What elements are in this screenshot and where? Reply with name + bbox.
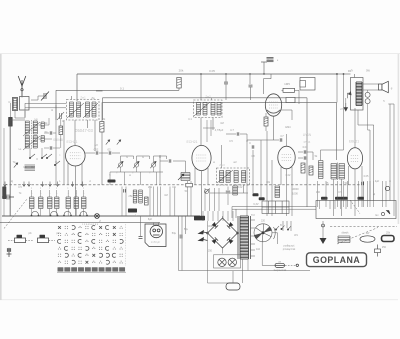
wire bbox=[243, 185, 245, 193]
capacitor right 1 bbox=[304, 150, 306, 153]
svg-text:C7: C7 bbox=[280, 134, 284, 138]
svg-text:0.05: 0.05 bbox=[364, 175, 369, 178]
capacitor padding bbox=[41, 122, 44, 129]
capacitor grid V4 bbox=[280, 138, 282, 141]
wire to band switch 2 bbox=[25, 107, 66, 109]
wire right drop bbox=[337, 181, 339, 207]
wire screen bus inner bbox=[103, 101, 337, 103]
svg-text:0.01: 0.01 bbox=[303, 146, 308, 149]
wire antenna stage feed bbox=[76, 74, 78, 101]
wire V5 cathode bbox=[354, 169, 356, 216]
jack TG dark bbox=[2, 187, 6, 200]
wire trimmer bus bbox=[110, 171, 163, 173]
wire V3 down bbox=[273, 116, 275, 140]
wire switch drop a bbox=[282, 221, 284, 231]
svg-text:1M: 1M bbox=[134, 194, 138, 198]
padder trimmer 1 bbox=[117, 161, 123, 168]
switch wafer contact bbox=[79, 212, 87, 217]
svg-text:50µ: 50µ bbox=[184, 228, 189, 231]
oscillator coil Lo1 bbox=[30, 197, 35, 209]
core L1L2 bbox=[30, 120, 32, 149]
wire bbox=[56, 190, 58, 197]
resistor dark right bbox=[321, 197, 328, 200]
tuning arrow L4 bbox=[23, 136, 40, 150]
wire psu left rail bbox=[207, 221, 209, 283]
diode bbox=[227, 222, 234, 229]
wire bbox=[225, 74, 227, 82]
capacitor 0.1 forest bbox=[124, 189, 126, 192]
resistor mixer bbox=[59, 126, 63, 135]
mains plug bbox=[199, 231, 208, 242]
wire forest drop bbox=[149, 187, 151, 217]
wire bbox=[354, 74, 356, 78]
wire bbox=[44, 132, 49, 134]
wire bbox=[212, 118, 214, 131]
wire bbox=[53, 147, 60, 149]
IF3 coil a bbox=[220, 171, 224, 183]
trimmer arrow 1 bbox=[106, 140, 110, 145]
terminal tick bbox=[329, 201, 331, 210]
capacitor 052 b bbox=[109, 151, 111, 154]
wire selector bbox=[272, 233, 278, 244]
wire bbox=[53, 132, 56, 134]
wire bbox=[240, 134, 247, 142]
wire forest drop bbox=[125, 187, 127, 217]
scan edge right bbox=[398, 54, 400, 224]
wire right drop bbox=[317, 181, 319, 207]
legend choke bbox=[338, 236, 350, 243]
wire bbox=[44, 147, 49, 149]
wire bbox=[260, 140, 262, 197]
svg-text:1 2 3 4 5 6 7 8 9: 1 2 3 4 5 6 7 8 9 bbox=[82, 224, 99, 226]
svg-text:0.5: 0.5 bbox=[338, 191, 342, 194]
wire bbox=[270, 139, 279, 141]
diode bbox=[212, 222, 219, 229]
wire bbox=[67, 190, 69, 197]
wire column x56 bbox=[55, 105, 57, 185]
wire bbox=[83, 209, 85, 217]
svg-text:VDR: VDR bbox=[207, 225, 212, 228]
svg-text:1M: 1M bbox=[220, 122, 223, 125]
svg-text:w: w bbox=[213, 161, 215, 164]
wire bbox=[24, 111, 26, 117]
wire bbox=[235, 209, 237, 218]
wire bbox=[83, 190, 85, 197]
switch wiper left bbox=[14, 163, 18, 168]
wire bbox=[55, 90, 57, 120]
resistor 1M5 bbox=[283, 88, 295, 92]
wire bbox=[178, 88, 180, 90]
pot wiper bbox=[178, 174, 184, 180]
wire bbox=[221, 145, 223, 168]
wire top cap bbox=[263, 78, 271, 80]
svg-text:Zw3: Zw3 bbox=[219, 163, 225, 167]
oscillator coupling coil bbox=[25, 165, 36, 170]
capacitor mid bbox=[226, 191, 230, 193]
wire long mid bbox=[246, 142, 248, 216]
switch contact c bbox=[46, 154, 52, 159]
wire bbox=[156, 172, 158, 185]
standoff 2 bbox=[38, 235, 56, 243]
VDR dark bbox=[194, 216, 205, 221]
capacitor 0.05 det bbox=[286, 98, 295, 103]
wire bbox=[44, 118, 49, 125]
wire trimmer 3 hook bbox=[154, 156, 167, 163]
legend dashed diag bbox=[337, 228, 378, 245]
svg-text:0.02: 0.02 bbox=[286, 174, 291, 177]
wire psu drop bbox=[212, 211, 214, 221]
AVC dashed bus bbox=[5, 184, 362, 186]
wire bbox=[341, 179, 343, 216]
wire IF2 feed bbox=[211, 98, 213, 100]
svg-text:25k: 25k bbox=[128, 194, 133, 198]
switch contact arrow bbox=[4, 182, 7, 187]
wire bbox=[262, 79, 264, 94]
wire left edge column bbox=[3, 128, 5, 216]
wire forest drop right bbox=[214, 188, 216, 211]
wire bbox=[109, 172, 111, 185]
trimmer arrow 2 bbox=[117, 140, 121, 145]
antenna coil winding bbox=[13, 99, 17, 110]
wire bbox=[363, 103, 394, 105]
wire bbox=[307, 151, 313, 153]
capacitor trimmer antenna bbox=[41, 92, 49, 101]
svg-text:1000: 1000 bbox=[292, 192, 298, 196]
wire bbox=[333, 179, 335, 216]
wire V4 cathode bbox=[286, 169, 288, 216]
wire bridge top bbox=[222, 216, 224, 218]
svg-text:W1: W1 bbox=[294, 234, 298, 237]
fuse dashes bbox=[285, 264, 296, 266]
wire bbox=[336, 102, 338, 160]
svg-text:250: 250 bbox=[208, 250, 213, 253]
wire right drop bbox=[363, 181, 365, 207]
svg-text:05047-03: 05047-03 bbox=[75, 128, 93, 133]
wire speaker a bbox=[363, 83, 379, 85]
wire screen bus outer bbox=[103, 97, 308, 99]
wire bbox=[231, 207, 233, 218]
wire bbox=[9, 103, 11, 117]
dial lamp bbox=[228, 258, 236, 266]
dial lamp bbox=[218, 258, 226, 266]
transformer tap bbox=[251, 249, 256, 251]
legend dashed line bbox=[330, 225, 397, 227]
tube socket layout grid bbox=[57, 226, 123, 265]
scan area tint bbox=[0, 54, 400, 300]
wire bbox=[190, 181, 192, 216]
wire speaker return bbox=[388, 103, 394, 105]
svg-text:1M: 1M bbox=[164, 194, 167, 197]
wire bbox=[101, 102, 103, 121]
capacitor left bottom bbox=[2, 195, 14, 200]
wire heater 2 bbox=[232, 208, 316, 210]
wire bbox=[136, 167, 138, 172]
wire forest drop bbox=[160, 187, 162, 217]
IF2 tuning arrow bbox=[194, 102, 210, 116]
wire right edge drop bbox=[389, 104, 391, 201]
switch wafer contact bbox=[63, 212, 71, 217]
wire bbox=[41, 148, 43, 158]
wire trimmer 1 hook bbox=[121, 156, 134, 163]
junction bbox=[200, 73, 201, 74]
switch contact arrow bbox=[81, 182, 84, 187]
wire transformer bottom bbox=[242, 259, 244, 283]
svg-text:6,3V: 6,3V bbox=[253, 203, 258, 206]
svg-text:0.5: 0.5 bbox=[18, 186, 22, 189]
wire +HT top bus bbox=[77, 73, 337, 75]
wire bbox=[81, 163, 83, 185]
capacitor trimmer bbox=[224, 82, 228, 84]
IF1 primary coil bbox=[70, 102, 74, 117]
resistor 20k bbox=[177, 78, 181, 89]
switch contact arrow bbox=[56, 182, 59, 187]
wire right edge drop b bbox=[393, 104, 395, 216]
IF3 coil d bbox=[242, 171, 246, 183]
IF3 coil b bbox=[226, 171, 230, 183]
wire to ground bbox=[322, 221, 324, 238]
svg-text:110: 110 bbox=[256, 248, 261, 251]
switch contact arrow bbox=[23, 182, 26, 187]
svg-text:w: w bbox=[129, 174, 131, 177]
wire bbox=[179, 259, 216, 261]
tuning gang dashed diagonal bbox=[4, 199, 27, 229]
wire forest drop bbox=[174, 187, 176, 217]
wire bbox=[44, 138, 52, 140]
resistor dark right bbox=[358, 197, 365, 200]
speaker bbox=[379, 81, 389, 92]
wire af bus bbox=[210, 192, 248, 194]
svg-text:2x50μF: 2x50μF bbox=[151, 240, 161, 244]
antenna coil primary bbox=[13, 98, 18, 111]
wire right drop bbox=[385, 181, 387, 207]
svg-text:dławik: dławik bbox=[342, 232, 350, 235]
wire bbox=[173, 160, 186, 162]
wire heater 1 bbox=[232, 206, 316, 208]
terminal tick bbox=[340, 201, 342, 210]
wire psu right bus bbox=[249, 270, 311, 272]
IF2 secondary b bbox=[217, 103, 221, 116]
scan edge left 2 bbox=[0, 54, 2, 300]
bridge corner R bbox=[237, 232, 239, 234]
connector circle b bbox=[365, 99, 370, 104]
connector circle a bbox=[365, 92, 370, 97]
IF1 tuning arrow bbox=[67, 103, 84, 118]
resistor right a bbox=[301, 163, 305, 173]
wire switch drop b bbox=[286, 221, 288, 228]
GOPLANA box bbox=[307, 253, 367, 267]
svg-text:220: 220 bbox=[261, 220, 266, 223]
wire bbox=[252, 150, 254, 193]
wire psu bottom rail bbox=[208, 282, 239, 284]
wire right drop bbox=[373, 181, 375, 207]
dark comp chassis bbox=[128, 209, 137, 213]
wire bbox=[56, 209, 58, 217]
terminal table bbox=[262, 201, 289, 214]
resistor vert dark bbox=[233, 186, 238, 195]
IF1 secondary coil b bbox=[92, 102, 96, 117]
terminal tick bbox=[350, 201, 352, 210]
jack circle right bbox=[385, 186, 389, 190]
resistor dark 2 bbox=[259, 197, 265, 200]
wire forest drop right bbox=[209, 188, 211, 211]
switch wafer contact bbox=[50, 212, 58, 217]
IF2 secondary bbox=[211, 103, 215, 116]
wire bbox=[67, 209, 69, 217]
svg-text:1/2: 1/2 bbox=[94, 144, 98, 147]
wire bbox=[67, 163, 69, 185]
wire bbox=[207, 168, 209, 185]
capacitor top plate bbox=[261, 61, 267, 63]
wire bbox=[336, 74, 338, 102]
padder trimmer 2 bbox=[133, 161, 139, 168]
resistor vert dark 2 bbox=[275, 186, 280, 198]
jack TA bbox=[8, 117, 12, 127]
coil L2 bbox=[33, 121, 37, 134]
wire from TA jack to chassis bbox=[9, 127, 11, 217]
svg-text:przełącznik: przełącznik bbox=[283, 248, 296, 251]
transformer tap bbox=[251, 235, 256, 237]
resistor 1M vertical bbox=[139, 190, 143, 203]
svg-text:4.7: 4.7 bbox=[230, 128, 234, 132]
wire to output transformer bbox=[337, 73, 351, 75]
wire bbox=[367, 104, 369, 130]
transformer tap bbox=[251, 219, 256, 221]
transformer tap bbox=[251, 255, 256, 257]
resistor cathode V3 bbox=[264, 117, 268, 126]
wire right drop bbox=[382, 181, 384, 207]
wire forest drop bbox=[121, 187, 123, 217]
wire right vertical drop bbox=[306, 98, 308, 207]
svg-text:2.5: 2.5 bbox=[340, 108, 344, 111]
chassis bus line bbox=[2, 215, 200, 217]
wire psu drop bbox=[207, 211, 209, 221]
wire bbox=[225, 92, 227, 100]
antenna bbox=[18, 76, 26, 96]
wire bbox=[271, 160, 273, 216]
wire left column bbox=[9, 120, 11, 216]
terminal tick bbox=[319, 201, 321, 210]
wire right drop bbox=[358, 181, 360, 207]
wire bbox=[31, 96, 44, 100]
coil L4 bbox=[33, 136, 37, 149]
pickup block bbox=[267, 58, 274, 62]
wire bbox=[226, 133, 236, 135]
IF3 coil c bbox=[234, 171, 238, 183]
terminal arrow symbol bbox=[381, 211, 390, 216]
wire transformer bottom b bbox=[247, 259, 249, 271]
wire right drop bbox=[343, 181, 345, 207]
IF1 primary coil b bbox=[77, 102, 81, 117]
output transformer winding bbox=[356, 82, 362, 106]
wire bbox=[99, 152, 108, 154]
legend dark box bbox=[382, 236, 395, 242]
wire bbox=[147, 216, 149, 223]
IF2 primary b bbox=[203, 103, 207, 116]
wire bbox=[60, 135, 62, 149]
capacitor 4.7 bbox=[237, 132, 239, 135]
svg-text:02: 02 bbox=[107, 148, 111, 152]
oscillator coil Lo2 bbox=[39, 197, 44, 209]
switch contact a bbox=[41, 154, 47, 159]
junction bbox=[336, 73, 338, 75]
wire under V3 b bbox=[210, 120, 212, 136]
wire psu drop bbox=[217, 211, 219, 221]
fuse terminal bbox=[296, 264, 298, 266]
junction bbox=[263, 73, 264, 74]
wire bbox=[203, 232, 208, 234]
wire trimmer 2 hook bbox=[137, 156, 150, 163]
svg-text:5W: 5W bbox=[366, 70, 370, 73]
wire V4 top bbox=[286, 134, 288, 146]
wire right drop bbox=[367, 181, 369, 207]
IF1 secondary coil bbox=[86, 102, 90, 117]
wire bbox=[298, 157, 303, 159]
wire plate to IF2 bbox=[200, 74, 202, 100]
svg-text:8µF: 8µF bbox=[148, 218, 153, 221]
resistor dark right bbox=[341, 197, 348, 200]
wire V5 plate bbox=[354, 108, 356, 148]
svg-text:GOPLANA: GOPLANA bbox=[313, 255, 361, 265]
svg-text:ECH21: ECH21 bbox=[67, 140, 78, 144]
svg-text:20k: 20k bbox=[179, 69, 184, 73]
wire bbox=[227, 194, 229, 205]
resistor dark 1 bbox=[253, 193, 259, 196]
wire bbox=[25, 117, 56, 119]
wire bbox=[75, 190, 77, 197]
wire bbox=[270, 74, 272, 79]
resistor small bbox=[145, 197, 149, 205]
svg-text:50μ: 50μ bbox=[172, 231, 177, 235]
electrolytic box bbox=[145, 224, 166, 247]
junction bbox=[225, 73, 226, 74]
svg-text:Tr2: Tr2 bbox=[251, 214, 255, 217]
svg-text:052: 052 bbox=[94, 148, 99, 152]
wire bbox=[321, 149, 344, 151]
label box W bbox=[300, 78, 315, 91]
wire bbox=[31, 209, 33, 217]
wire switch drop c bbox=[290, 221, 292, 231]
junction bbox=[249, 73, 250, 74]
wire bbox=[345, 98, 347, 103]
wire bbox=[320, 150, 322, 161]
resistor screen bbox=[100, 122, 104, 133]
wire V3 to V4 grid bbox=[247, 140, 270, 142]
switch contact d bbox=[54, 161, 60, 166]
wire bbox=[243, 271, 245, 283]
wire bbox=[309, 248, 311, 271]
svg-text:EBL21: EBL21 bbox=[349, 140, 359, 144]
wire IF2 to V2 bbox=[200, 118, 202, 146]
wire bbox=[312, 152, 314, 160]
wire V2 cathode bbox=[201, 171, 203, 216]
wire OT down bbox=[357, 110, 359, 125]
svg-text:05048: 05048 bbox=[53, 138, 63, 142]
svg-text:Zw1: Zw1 bbox=[80, 96, 86, 100]
tuning arrow L2 bbox=[23, 122, 40, 136]
wire under V3 a bbox=[206, 120, 208, 142]
power transformer core bbox=[238, 216, 251, 259]
capacitor padding 2 bbox=[41, 136, 44, 143]
wire bbox=[60, 118, 62, 126]
svg-text:w: w bbox=[389, 180, 391, 183]
svg-text:10000: 10000 bbox=[291, 187, 299, 191]
lamp box bbox=[214, 255, 241, 268]
resistor right b bbox=[309, 166, 313, 175]
wire bbox=[120, 167, 122, 172]
legend oval bbox=[360, 236, 375, 242]
wire psu drop bbox=[202, 211, 204, 221]
wire forest drop right bbox=[204, 188, 206, 211]
